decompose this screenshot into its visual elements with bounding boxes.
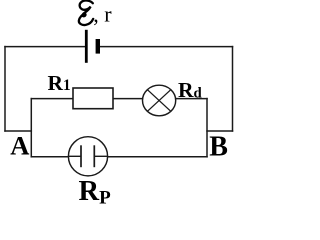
svg-text:,: , <box>93 2 99 27</box>
svg-text:A: A <box>10 130 29 160</box>
svg-text:r: r <box>104 1 112 26</box>
svg-text:B: B <box>209 131 228 162</box>
